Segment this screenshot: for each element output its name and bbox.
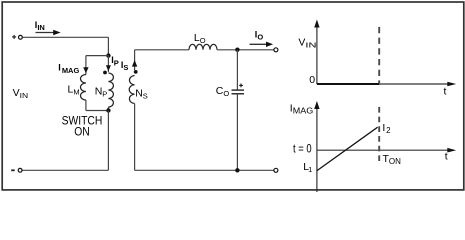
terminal output positive [274,48,278,52]
wire LM lead with IMAG arrow [83,56,88,75]
polarity plus CO [239,84,243,88]
svg-text:t: t [445,151,448,163]
svg-text:t: t [444,85,447,97]
wire bottom rail secondary [135,169,274,171]
arrow IIN [36,30,61,35]
graph2 axis IMAG vertical [314,101,319,192]
node junction output top [235,48,239,52]
svg-text:ON: ON [74,124,90,138]
wire primary drop [107,37,109,55]
current arrow IP [106,56,111,72]
svg-text:t = 0: t = 0 [293,142,312,156]
wire capacitor top lead [236,50,238,90]
polarity dot NP [103,71,107,75]
inductor LM magnetizing inductance [81,75,86,101]
graph2 dashed line TON [378,107,380,161]
polarity dot NS [134,70,138,74]
graph1 trace VIN zero thick [317,83,379,85]
inductor LO output [189,44,217,50]
wire LM bottom lead [85,100,87,111]
winding NS secondary [129,76,134,104]
wire bottom rail primary [22,169,108,171]
wire NP bottom lead [107,107,109,111]
terminal plus input positive [12,35,22,39]
current arrow IS [132,50,137,70]
wire secondary top rail left [135,49,189,51]
graph1 axis VIN vertical [314,20,319,85]
wire switch lead [107,111,109,171]
wire loop bottom [86,110,109,112]
label SWITCH ON [62,114,103,139]
node junction output bottom [235,168,239,172]
winding NP primary [108,73,113,107]
svg-text:0: 0 [309,74,315,86]
wire NS bottom lead [134,104,136,171]
wire top rail primary [23,36,109,38]
arrow IO [250,42,274,47]
wire junction to LM [86,55,109,57]
terminal output negative [274,168,278,172]
wire secondary top rail right [217,49,274,51]
capacitor CO [232,90,245,94]
graph2 ramp IMAG trace [317,127,378,170]
terminal minus input negative [11,168,22,172]
graph1 dashed line switch off [378,27,380,83]
graph1 axis t horizontal [317,82,456,87]
graph2 axis t horizontal [317,148,456,153]
node junction primary bottom [106,108,110,112]
wire capacitor bottom lead [236,94,238,171]
node junction primary top [106,53,110,57]
